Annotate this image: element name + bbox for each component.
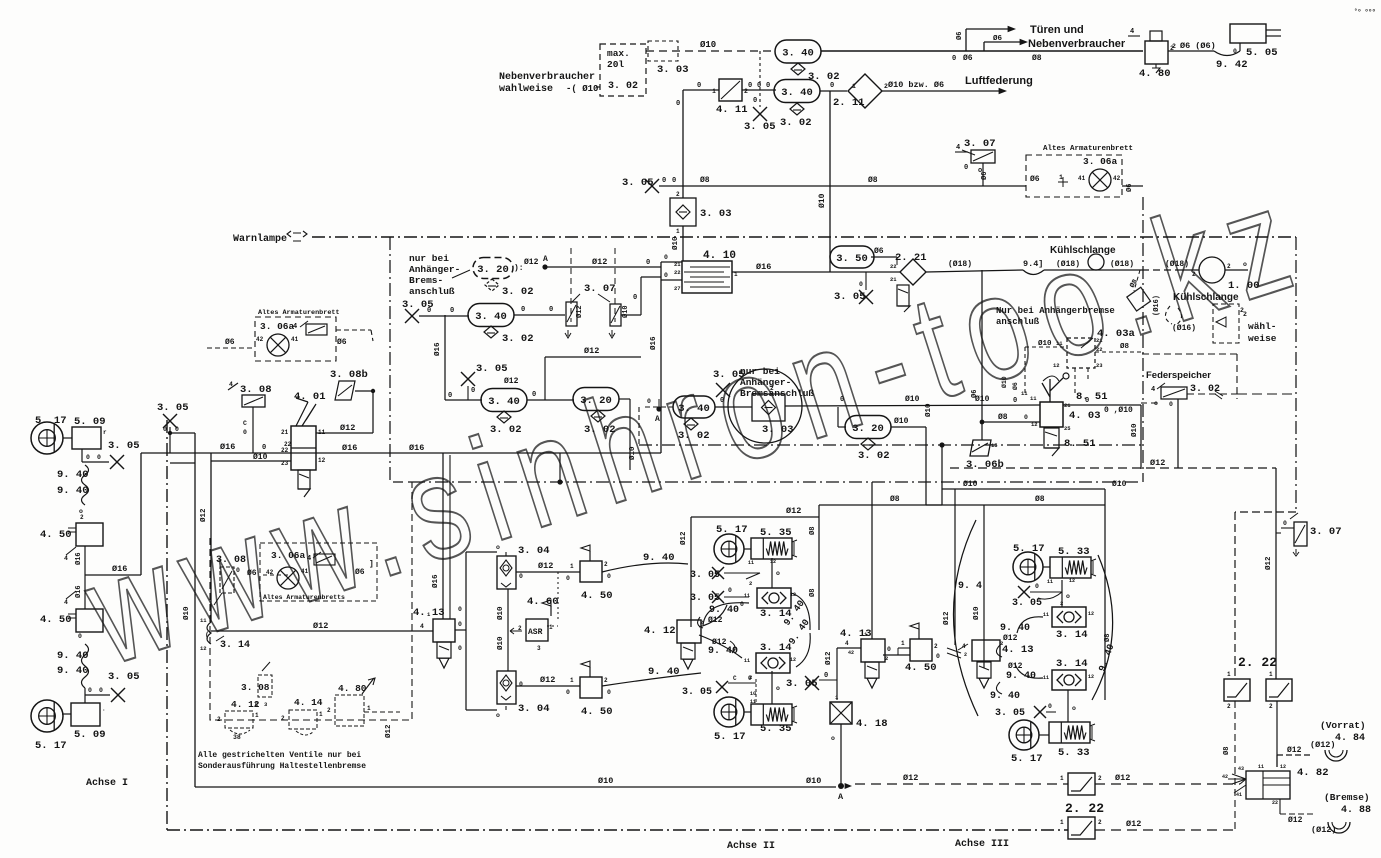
- svg-text:4: 4: [420, 623, 424, 630]
- unloader valve 4.11: [712, 79, 748, 116]
- svg-text:Ø16: Ø16: [112, 564, 127, 574]
- svg-text:3. 08: 3. 08: [240, 384, 272, 396]
- dashed feed to 3.40 wahlweise: [639, 398, 673, 445]
- svg-text:Ø8: Ø8: [868, 176, 878, 185]
- svg-text:3. 05: 3. 05: [476, 363, 508, 375]
- svg-text:Ø8: Ø8: [1222, 747, 1231, 755]
- vertical x872 into 4.13 axle2: [871, 482, 873, 639]
- wire from 3.06a box to x373: [371, 330, 373, 341]
- svg-text:3. 40: 3. 40: [678, 403, 710, 415]
- labels Achse II and III: [727, 838, 1009, 852]
- stub from O16 line to node on dash line: [559, 453, 561, 482]
- svg-text:41: 41: [1078, 175, 1086, 182]
- svg-text:Ø10: Ø10: [496, 606, 505, 620]
- svg-text:3. 14: 3. 14: [1056, 629, 1088, 641]
- svg-text:(Ø18): (Ø18): [1056, 260, 1080, 269]
- svg-text:nur bei: nur bei: [740, 366, 780, 377]
- wire O8 into 4.03 port12: [980, 413, 1040, 424]
- hose to Bremse 4.88: [1280, 792, 1371, 835]
- svg-text:Ø8: Ø8: [1103, 634, 1112, 642]
- svg-text:4. 50: 4. 50: [40, 529, 72, 541]
- svg-text:9. 4: 9. 4: [958, 581, 982, 592]
- svg-text:0: 0: [427, 307, 431, 315]
- dashed valve 4.12 small: [217, 699, 260, 741]
- svg-text:4. 80: 4. 80: [1139, 68, 1171, 80]
- svg-text:0: 0: [753, 97, 757, 105]
- trailer valve 4.03: [1030, 395, 1101, 432]
- drain 3.02 under 3.20 row3: [584, 410, 616, 436]
- dashed box Federspeicher: [1146, 370, 1296, 408]
- svg-text:5. 17: 5. 17: [714, 731, 746, 743]
- hoses 9.40 axle3 lower: [990, 662, 1043, 702]
- svg-text:3. 06a: 3. 06a: [271, 550, 306, 561]
- svg-text:anschluß: anschluß: [409, 286, 455, 297]
- svg-text:Ø10: Ø10: [621, 305, 630, 318]
- pressure valve 3.40 row2: [468, 304, 514, 327]
- svg-text:9. 40: 9. 40: [57, 485, 89, 497]
- svg-text:9. 40: 9. 40: [648, 666, 680, 678]
- svg-text:3. 07: 3. 07: [584, 283, 616, 295]
- wire O12 axle2 top: [691, 505, 819, 517]
- shuttle 2.22 right pair b: [1266, 671, 1292, 710]
- svg-text:Achse III: Achse III: [955, 838, 1009, 850]
- svg-text:2: 2: [1098, 819, 1102, 826]
- svg-text:1: 1: [570, 677, 574, 684]
- svg-text:4. 18: 4. 18: [856, 718, 888, 730]
- svg-text:11: 11: [1056, 340, 1063, 347]
- svg-text:Ø10: Ø10: [1130, 423, 1139, 437]
- svg-text:Ø6: Ø6: [247, 569, 257, 578]
- svg-text:(Vorrat): (Vorrat): [1320, 720, 1366, 731]
- svg-text:Ø10 bzw. Ø6: Ø10 bzw. Ø6: [888, 80, 944, 90]
- svg-text:11: 11: [748, 560, 754, 566]
- dash-dot border right vertical: [1295, 237, 1297, 512]
- watermark www.sinhron-too.kz: [67, 151, 1324, 697]
- svg-text:4: 4: [1130, 28, 1134, 36]
- svg-text:4. 84: 4. 84: [1335, 733, 1365, 744]
- wires below 2.22 pair: [1222, 701, 1277, 830]
- svg-text:0: 0: [662, 177, 666, 185]
- svg-text:3. 06a: 3. 06a: [1083, 156, 1118, 167]
- dashed box Altes Armaturenbrett left: [255, 309, 340, 361]
- bracket 3.03 dashed: [648, 41, 689, 76]
- svg-text:Ø10: Ø10: [894, 417, 909, 426]
- svg-text:3. 05: 3. 05: [157, 402, 189, 414]
- svg-text:°ᵒ ᵒᵒᵒ: °ᵒ ᵒᵒᵒ: [1354, 8, 1376, 15]
- svg-text:5. 17: 5. 17: [1013, 543, 1045, 555]
- svg-text:Ø16: Ø16: [431, 574, 440, 588]
- svg-text:22: 22: [281, 447, 289, 454]
- svg-text:3. 05: 3. 05: [108, 671, 140, 683]
- hoses from 4.12 to right: [699, 605, 742, 658]
- reservoir max 20l dashed box 3.02: [600, 44, 646, 96]
- park brake valve 3.08 dashed lower: [214, 555, 290, 605]
- svg-text:Ø16: Ø16: [342, 443, 357, 453]
- dashed valve 3.08 small: [241, 662, 272, 708]
- svg-text:3. 02: 3. 02: [502, 286, 534, 298]
- svg-text:0: 0: [728, 587, 732, 594]
- svg-text:15: 15: [991, 442, 998, 449]
- test point 3.05 before 4.13 axle2: [786, 672, 837, 690]
- pressure limiter pair 3.07: [565, 283, 630, 338]
- svg-text:o: o: [831, 735, 835, 742]
- filter 2.21: [871, 252, 927, 285]
- wire 5.33 down to 3.14 axle3: [1062, 580, 1070, 607]
- svg-text:0: 0: [1048, 703, 1052, 710]
- test point 3.05 under 3.50: [834, 272, 873, 304]
- spring brake 5.35 top: [748, 527, 797, 566]
- svg-text:9. 40: 9. 40: [57, 469, 89, 481]
- vertical wire O10 from 3.40 down: [818, 91, 830, 272]
- svg-text:4: 4: [64, 599, 68, 606]
- svg-text:Ø12: Ø12: [903, 773, 918, 783]
- svg-text:Ø6: Ø6: [970, 390, 979, 398]
- svg-text:Nebenverbraucher: Nebenverbraucher: [1028, 38, 1126, 50]
- quick release valve 3.14 axle2 bottom: [744, 642, 796, 681]
- svg-text:Ø12: Ø12: [384, 724, 393, 738]
- svg-text:2: 2: [964, 652, 967, 658]
- wire 3.03 to 4.03 line: [785, 390, 1040, 406]
- wire O16 main line to 4.01 and 4.10: [141, 442, 661, 453]
- svg-text:0: 0: [1013, 397, 1017, 405]
- svg-text:0: 0: [448, 392, 452, 400]
- svg-text:2: 2: [327, 707, 331, 714]
- svg-text:12: 12: [1088, 611, 1094, 617]
- svg-text:Ø6: Ø6: [955, 32, 964, 40]
- svg-text:0: 0: [840, 396, 844, 404]
- lever valve 4.50 module upper: [580, 545, 613, 602]
- svg-text:Ø8: Ø8: [1032, 54, 1042, 63]
- svg-text:11: 11: [744, 658, 750, 664]
- svg-text:wahlweise: wahlweise: [499, 83, 553, 95]
- svg-text:Ø16: Ø16: [433, 342, 442, 356]
- svg-text:1: 1: [712, 88, 716, 95]
- svg-text:2: 2: [1227, 263, 1231, 270]
- svg-text:2: 2: [770, 385, 774, 392]
- wire O10 bottom main line: [195, 776, 836, 787]
- pressure valve 3.40 wahlweise: [673, 396, 715, 418]
- svg-text:Ø10: Ø10: [818, 193, 827, 208]
- svg-text:42: 42: [1222, 774, 1228, 780]
- wire stub to 3.04 bottom: [466, 706, 506, 719]
- wire 3.40E to check valve 3.03: [715, 397, 752, 407]
- svg-text:11: 11: [1043, 675, 1049, 681]
- svg-text:Ø16: Ø16: [409, 443, 424, 453]
- svg-text:5. 09: 5. 09: [74, 729, 106, 741]
- svg-text:4. 14: 4. 14: [294, 697, 323, 708]
- svg-text:3. 07: 3. 07: [964, 138, 996, 150]
- svg-text:Ø8: Ø8: [808, 527, 817, 535]
- svg-text:9. 42: 9. 42: [1216, 59, 1248, 71]
- svg-text:Ø12: Ø12: [1115, 773, 1130, 783]
- svg-text:Ø16: Ø16: [220, 442, 235, 452]
- svg-text:0: 0: [607, 689, 611, 696]
- svg-text:(Ø18): (Ø18): [1165, 260, 1189, 269]
- svg-text:0: 0: [697, 82, 701, 90]
- svg-text:3. 06a: 3. 06a: [260, 321, 295, 332]
- svg-text:9. 40: 9. 40: [57, 665, 89, 677]
- svg-text:Ø6: Ø6: [980, 172, 989, 180]
- note Alle gestrichelten Ventile: [198, 751, 366, 771]
- svg-text:wähl-: wähl-: [1248, 321, 1277, 332]
- svg-text:3. 02: 3. 02: [858, 450, 890, 462]
- svg-text:42: 42: [256, 336, 264, 343]
- svg-text:2: 2: [217, 716, 221, 723]
- svg-text:3. 02: 3. 02: [780, 117, 812, 129]
- test point 3.05 axle2 a: [690, 567, 760, 581]
- svg-text:Ø10: Ø10: [924, 403, 933, 417]
- svg-text:1: 1: [255, 712, 259, 719]
- svg-text:Altes Armaturenbrett: Altes Armaturenbrett: [1043, 145, 1133, 153]
- svg-text:Ø6: Ø6: [993, 34, 1003, 43]
- test point 3.05 axle2 c: [682, 675, 756, 705]
- svg-text:1: 1: [570, 563, 574, 570]
- dashed box Altes Armaturenbretts lower: [260, 543, 377, 601]
- svg-text:4. 88: 4. 88: [1341, 805, 1371, 816]
- wire 4.11 to 3.40 lower: [742, 82, 776, 90]
- lever valve 4.50 axle1 upper: [40, 514, 103, 546]
- svg-text:0: 0: [175, 426, 179, 433]
- svg-text:0: 0: [676, 100, 680, 108]
- svg-text:4. 50: 4. 50: [40, 614, 72, 626]
- svg-text:12: 12: [1088, 674, 1094, 680]
- svg-text:Nur bei Anhängerbremse: Nur bei Anhängerbremse: [996, 306, 1115, 316]
- svg-text:2. 11: 2. 11: [833, 97, 865, 109]
- dashed hoses wahlweise: [1152, 295, 1277, 344]
- pressure limiter 3.07 bottom right: [1281, 513, 1342, 556]
- svg-text:3. 14: 3. 14: [1056, 658, 1088, 670]
- svg-text:Ø10: Ø10: [905, 395, 920, 404]
- wire 3.40 to 3.07 pair: [514, 306, 565, 315]
- brake chamber 5.17 axle3 bottom: [1009, 720, 1049, 765]
- brake chamber 5.17 axle2 top: [714, 524, 751, 564]
- verticals into axle3 valves: [942, 489, 984, 668]
- svg-text:22: 22: [674, 269, 681, 276]
- test point 3.05 left border top: [157, 402, 189, 435]
- wire O18 Kuehlschlange line: [926, 259, 1189, 275]
- svg-text:Ø10: Ø10: [806, 776, 821, 786]
- brake chamber 5.17 axle1 top: [31, 415, 67, 454]
- svg-text:3. 02: 3. 02: [490, 424, 522, 436]
- svg-text:Ø8: Ø8: [808, 589, 817, 597]
- svg-text:22: 22: [1272, 800, 1278, 806]
- test point 3.05 axle3 b: [995, 703, 1056, 719]
- hose 9.40 axle2 left: [698, 603, 749, 628]
- label Nur bei Anhaengerbremse anschluss: [996, 306, 1115, 327]
- wire 3.20 lower to vertical: [891, 403, 933, 505]
- shuttle valve 2.22 bottom b: [1060, 817, 1102, 839]
- wire into 4.13 axle2: [824, 640, 861, 700]
- svg-text:-( Ø10: -( Ø10: [566, 84, 598, 94]
- svg-text:1: 1: [901, 640, 905, 647]
- pressure valve 3.40 top: [775, 40, 821, 63]
- vertical O16 x661 and stubs into 4.10: [649, 254, 682, 453]
- svg-text:]: ]: [369, 560, 374, 569]
- wire from 3.07 down to 4.82: [1264, 468, 1281, 679]
- svg-text:C: C: [733, 675, 737, 682]
- svg-text:0: 0: [458, 645, 462, 652]
- hose 9.40 module lower: [602, 666, 701, 686]
- solenoid 4.18: [830, 694, 888, 742]
- svg-text:0: 0: [78, 633, 82, 640]
- svg-text:1: 1: [549, 624, 553, 631]
- svg-text:9. 40: 9. 40: [643, 552, 675, 564]
- svg-text:0: 0: [532, 391, 536, 399]
- svg-text:(Ø12): (Ø12): [1310, 740, 1336, 750]
- dash-dot border right lower jog: [1235, 511, 1296, 513]
- svg-text:0: 0: [88, 687, 92, 694]
- svg-text:0: 0: [566, 575, 570, 582]
- svg-text:o: o: [776, 685, 780, 692]
- dotted branch to ASR: [547, 572, 558, 626]
- svg-text:1: 1: [367, 705, 371, 712]
- svg-text:0: 0: [607, 573, 611, 580]
- svg-text:Federspeicher: Federspeicher: [1146, 370, 1211, 381]
- svg-text:3. 04: 3. 04: [518, 703, 550, 715]
- wire 4.13 axle1 to distribution vertical: [455, 552, 466, 710]
- air connector 5.05: [1230, 24, 1281, 59]
- svg-text:0: 0: [672, 177, 676, 185]
- svg-text:0: 0: [740, 601, 744, 608]
- test point 3.05 row3: [461, 363, 508, 400]
- svg-text:9. 40: 9. 40: [57, 650, 89, 662]
- wire O12 from 3.14 coupling to 4.13: [211, 621, 433, 631]
- drier exhaust below 2.21: [897, 285, 910, 312]
- svg-text:0: 0: [936, 653, 940, 660]
- relay valve 4.13 axle3: [958, 640, 1034, 688]
- vertical from Federspeicher to O12 dashes: [1177, 399, 1179, 468]
- wire O12 3.04 to 4.50 lower: [516, 675, 580, 696]
- hand brake valve 3.08: [228, 381, 272, 453]
- svg-text:0: 0: [633, 294, 637, 302]
- svg-text:3. 20: 3. 20: [580, 395, 612, 407]
- svg-text:8. 51: 8. 51: [1076, 391, 1108, 403]
- svg-text:(Bremse): (Bremse): [1324, 792, 1370, 803]
- svg-text:2: 2: [700, 619, 703, 626]
- pressure regulator 3.07 top right: [955, 138, 996, 186]
- svg-text:Türen und: Türen und: [1030, 24, 1084, 36]
- governor 3.50: [830, 246, 884, 268]
- svg-text:Ø6: Ø6: [337, 338, 347, 347]
- svg-text:0: 0: [519, 573, 523, 580]
- lever valve 4.50 axle1 lower: [40, 609, 103, 640]
- svg-text:Ø10: Ø10: [628, 446, 637, 460]
- svg-text:12: 12: [1069, 578, 1075, 584]
- svg-text:3. 02: 3. 02: [608, 81, 638, 92]
- test point 3.05 near 5.09 bottom: [85, 671, 140, 703]
- svg-text:5. 05: 5. 05: [1246, 47, 1278, 59]
- wire into 3.40 row3: [445, 377, 519, 400]
- drain valve 3.02 under second 3.40: [780, 103, 812, 129]
- wire 5.35 down to 3.14: [772, 558, 780, 588]
- svg-text:o: o: [496, 544, 500, 551]
- svg-text:4. 50: 4. 50: [581, 590, 613, 602]
- lever on 4.03: [1042, 373, 1069, 402]
- wire O12 3.04 to 4.50 upper: [516, 561, 580, 582]
- svg-text:41: 41: [301, 568, 309, 575]
- dashed valve 4.14 small: [281, 697, 323, 735]
- svg-text:0: 0: [86, 454, 90, 461]
- test point 3.05 center: [713, 369, 745, 397]
- svg-text:9.4]: 9.4]: [1023, 259, 1043, 269]
- shuttle 2.22 right pair a: [1224, 671, 1250, 710]
- svg-text:3. 50: 3. 50: [836, 253, 868, 265]
- svg-text:1: 1: [1227, 671, 1231, 678]
- ABS valve 4.60 ASR: [510, 596, 559, 652]
- branch to Tueren und Nebenverbraucher: [955, 26, 1028, 51]
- svg-text:4. 82: 4. 82: [1297, 767, 1329, 779]
- svg-text:42: 42: [1113, 175, 1121, 182]
- vertical wire x195 down to bottom line: [170, 433, 195, 787]
- svg-text:3. 03: 3. 03: [657, 64, 689, 76]
- wire 3.20 to vertical x630: [619, 399, 637, 470]
- svg-text:3. 02: 3. 02: [678, 430, 710, 442]
- svg-text:Ø16: Ø16: [756, 262, 771, 272]
- wire O8 horizontal line: [659, 176, 1143, 186]
- svg-text:(Ø16): (Ø16): [1152, 295, 1161, 316]
- svg-text:o: o: [1243, 261, 1247, 268]
- hose 9.40 module upper: [602, 552, 688, 572]
- svg-text:3. 14: 3. 14: [760, 642, 792, 654]
- node A row3: [655, 399, 662, 424]
- svg-text:0: 0: [664, 254, 668, 261]
- brake cylinder 5.09 bottom: [62, 703, 106, 741]
- vertical wire from 4.11 down: [676, 90, 683, 198]
- svg-text:0: 0: [458, 606, 462, 613]
- double vertical supply to 4.13 axle1: [431, 453, 450, 619]
- test point 3.05 axle2 b: [690, 587, 749, 608]
- svg-text:0: 0: [1085, 397, 1089, 405]
- svg-text:Ø12: Ø12: [708, 616, 723, 625]
- dashed trailer valve 4.03a: [1000, 328, 1142, 396]
- svg-text:Sonderausführung Haltestellenb: Sonderausführung Haltestellenbremse: [198, 762, 366, 771]
- dashed valve 3.20 trailer: [473, 258, 534, 299]
- svg-text:5. 17: 5. 17: [35, 415, 67, 427]
- svg-text:3. 02: 3. 02: [584, 424, 616, 436]
- svg-text:2: 2: [1172, 43, 1176, 50]
- svg-text:0: 0: [262, 444, 266, 452]
- svg-text:3. 05: 3. 05: [108, 440, 140, 452]
- wire 3.03 down to 4.10: [671, 226, 683, 261]
- drain valve 3.02 under 3.40 top: [791, 63, 840, 83]
- svg-text:42: 42: [266, 569, 274, 576]
- svg-text:0: 0: [664, 272, 668, 279]
- svg-text:5. 35: 5. 35: [760, 527, 792, 539]
- svg-text:2: 2: [281, 715, 285, 722]
- svg-text:Ø10: Ø10: [253, 453, 268, 462]
- svg-text:2: 2: [934, 643, 938, 650]
- svg-text:4: 4: [1151, 386, 1155, 394]
- svg-text:12: 12: [1280, 764, 1286, 770]
- vertical wire x982 Kuehlschlange to 3.06b: [970, 270, 982, 440]
- wire 4.10 out O16 to 2.21: [732, 262, 900, 272]
- svg-text:11: 11: [744, 593, 750, 599]
- tilted connector O8: [1127, 270, 1151, 311]
- svg-text:Ø10: Ø10: [598, 776, 613, 786]
- label Tueren und Nebenverbraucher: [1028, 24, 1126, 50]
- pressure valve 3.40 second: [774, 80, 820, 103]
- svg-text:Ø10: Ø10: [182, 606, 191, 620]
- svg-text:0: 0: [163, 426, 167, 433]
- hose arcs right of 3.14 axle2: [781, 593, 812, 667]
- svg-text:2: 2: [749, 580, 752, 587]
- svg-text:1: 1: [852, 83, 856, 90]
- svg-text:Ø12: Ø12: [824, 651, 833, 665]
- check valve 3.03 trailer: [752, 385, 794, 436]
- svg-text:2. 21: 2. 21: [895, 252, 927, 264]
- svg-text:1: 1: [1059, 174, 1063, 181]
- svg-text:Kühlschlange: Kühlschlange: [1173, 292, 1239, 303]
